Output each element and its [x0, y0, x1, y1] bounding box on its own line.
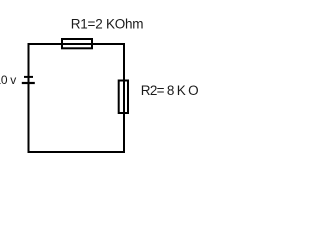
resistor R2 — [119, 81, 128, 114]
wire bottom — [28, 151, 126, 153]
svg-text:R2= 8 K O: R2= 8 K O — [141, 83, 198, 98]
wire right — [123, 43, 125, 153]
svg-text:R1=2 KOhm: R1=2 KOhm — [71, 16, 143, 31]
battery V1 long plate — [22, 82, 35, 84]
wire top — [28, 43, 126, 45]
resistor R1 — [62, 39, 92, 48]
battery V1 short plate — [24, 76, 33, 78]
wire left — [28, 43, 30, 153]
svg-text:10 v: 10 v — [0, 73, 16, 87]
